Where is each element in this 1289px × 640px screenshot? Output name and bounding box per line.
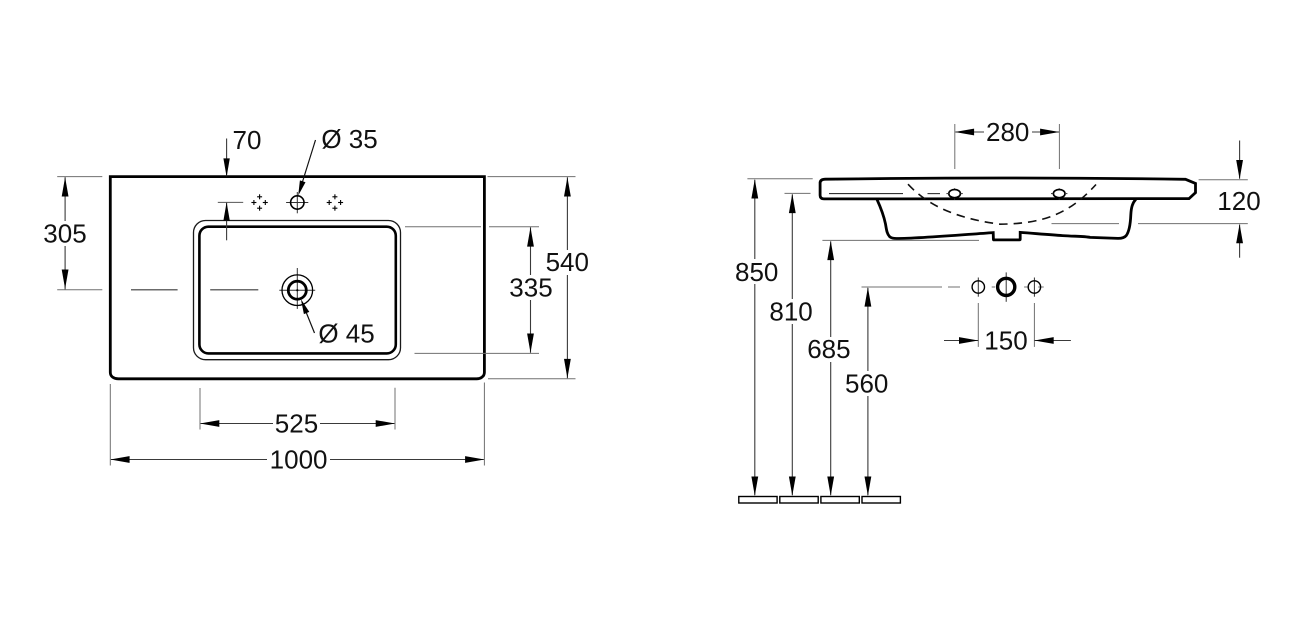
dimension 335 extension lines bbox=[405, 226, 481, 228]
drain outer circle bbox=[282, 275, 313, 306]
svg-text:560: 560 bbox=[845, 369, 888, 399]
svg-text:685: 685 bbox=[807, 334, 850, 364]
dimension 525 extension lines bbox=[199, 388, 201, 430]
right faucet hole (side view) bbox=[1051, 188, 1067, 200]
right optional faucet hole marker bbox=[327, 194, 343, 210]
inner bowl rim (thin rounded rect) bbox=[194, 221, 401, 360]
drain hole circle (side view) bbox=[998, 272, 1015, 301]
floor tile 4 bbox=[862, 497, 900, 504]
dimension 685 bbox=[806, 241, 852, 496]
dimension 540 extension lines bbox=[488, 176, 576, 178]
dimension 335 bbox=[508, 227, 554, 352]
mounting holes centerline bbox=[862, 286, 1044, 288]
outer basin outline bbox=[110, 177, 484, 379]
drain center dot bbox=[296, 289, 298, 291]
floor tile 3 bbox=[821, 497, 859, 504]
drain hole circle bbox=[288, 281, 306, 299]
dimension 150 bbox=[944, 326, 1071, 356]
horizontal centerline dashes bbox=[131, 289, 178, 291]
dimension 525 bbox=[200, 409, 395, 439]
svg-text:120: 120 bbox=[1217, 186, 1260, 216]
dimension 280 extension lines bbox=[954, 124, 956, 169]
hidden interior profile (dashed) bbox=[908, 184, 1096, 224]
dimension 1000 extension lines bbox=[109, 384, 111, 466]
floor tile 1 bbox=[739, 497, 777, 504]
dimension 150 extension lines bbox=[977, 303, 979, 347]
svg-text:Ø 45: Ø 45 bbox=[318, 319, 374, 349]
mounting hole right cross circle bbox=[1028, 278, 1040, 297]
svg-text:70: 70 bbox=[233, 125, 262, 155]
washbasin slab outline bbox=[820, 178, 1195, 199]
left optional faucet hole marker bbox=[251, 194, 267, 210]
svg-text:335: 335 bbox=[509, 273, 552, 303]
dimension 850 extension line bbox=[747, 178, 812, 180]
svg-text:305: 305 bbox=[43, 219, 86, 249]
svg-text:810: 810 bbox=[769, 296, 812, 326]
bowl underside outline bbox=[877, 199, 1136, 240]
dimension 560 bbox=[844, 287, 890, 496]
faucet hole centerline stub bbox=[218, 201, 243, 203]
svg-text:1000: 1000 bbox=[270, 445, 328, 475]
dimension 540 bbox=[544, 177, 591, 378]
dimension 685 extension line bbox=[822, 239, 979, 241]
dimension 810 extension line bbox=[785, 192, 811, 194]
dimension 120 extension lines bbox=[1199, 179, 1248, 181]
left faucet hole (side view) bbox=[946, 188, 962, 200]
floor tile 2 bbox=[780, 497, 818, 504]
label Ø35 with leader bbox=[298, 124, 377, 196]
dimension 305 bbox=[42, 177, 88, 289]
mounting hole left cross circle bbox=[972, 278, 984, 297]
svg-text:850: 850 bbox=[735, 257, 778, 287]
dimension 120 bbox=[1217, 141, 1260, 258]
middle faucet hole bbox=[286, 192, 308, 213]
svg-text:280: 280 bbox=[986, 117, 1029, 147]
dimension 810 bbox=[769, 194, 815, 496]
inner bowl bottom (thick rounded rect) bbox=[199, 227, 395, 354]
drain crosshair bbox=[279, 289, 315, 291]
svg-text:150: 150 bbox=[984, 326, 1027, 356]
slab inner seam line bbox=[829, 193, 903, 195]
dimension 70 bbox=[223, 125, 261, 240]
dimension 280 bbox=[955, 117, 1060, 147]
label Ø45 with leader bbox=[301, 299, 375, 348]
dimension 305 extension lines bbox=[57, 176, 102, 178]
svg-text:525: 525 bbox=[275, 409, 318, 439]
dimension 1000 bbox=[110, 445, 484, 475]
svg-text:Ø 35: Ø 35 bbox=[321, 124, 377, 154]
dimension 850 bbox=[734, 179, 780, 496]
